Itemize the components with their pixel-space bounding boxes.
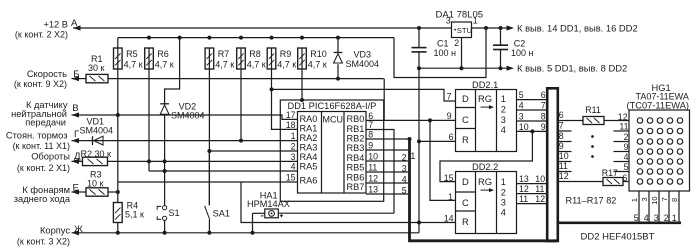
svg-text:1: 1	[501, 94, 506, 104]
svg-text:4,7 к: 4,7 к	[277, 60, 296, 70]
svg-text:10: 10	[559, 151, 569, 161]
svg-text:В: В	[72, 103, 78, 114]
svg-text:D: D	[462, 176, 469, 187]
svg-text:7: 7	[447, 92, 452, 102]
svg-text:RG: RG	[478, 176, 492, 187]
svg-text:10: 10	[650, 196, 659, 204]
svg-text:R7: R7	[218, 49, 230, 59]
svg-text:9: 9	[559, 141, 564, 151]
svg-text:R17: R17	[602, 168, 618, 178]
svg-text:4: 4	[644, 213, 649, 223]
svg-text:передачи: передачи	[25, 117, 66, 127]
svg-text:R6: R6	[157, 49, 169, 59]
svg-text:9: 9	[447, 111, 452, 121]
svg-text:SA1: SA1	[213, 208, 230, 218]
svg-text:9: 9	[624, 142, 629, 152]
svg-text:3: 3	[446, 15, 451, 25]
svg-text:7: 7	[368, 120, 373, 130]
svg-text:R11–R17 82: R11–R17 82	[566, 196, 617, 206]
svg-text:2: 2	[454, 38, 459, 48]
svg-text:7: 7	[559, 121, 564, 131]
svg-text:RA0: RA0	[300, 114, 318, 124]
svg-text:4: 4	[291, 162, 296, 172]
svg-text:6: 6	[541, 90, 546, 100]
svg-text:4,7 к: 4,7 к	[308, 60, 327, 70]
svg-text:8: 8	[541, 112, 546, 122]
svg-text:SM4004: SM4004	[171, 110, 205, 120]
svg-text:Д: Д	[74, 151, 81, 162]
svg-text:14: 14	[444, 213, 454, 223]
svg-text:S1: S1	[168, 208, 179, 218]
svg-text:3: 3	[501, 198, 506, 208]
svg-text:А: А	[71, 18, 78, 29]
svg-text:RG: RG	[478, 93, 492, 104]
svg-text:10: 10	[368, 152, 378, 162]
svg-text:D: D	[462, 93, 469, 104]
svg-text:1: 1	[672, 213, 677, 223]
svg-text:8: 8	[368, 130, 373, 140]
svg-text:Е: Е	[73, 183, 79, 194]
svg-text:R: R	[462, 134, 469, 145]
svg-text:STU: STU	[457, 26, 472, 35]
svg-text:(к конт. 2 Х1): (к конт. 2 Х1)	[17, 163, 70, 173]
svg-text:4,7 к: 4,7 к	[124, 60, 143, 70]
svg-text:8: 8	[559, 131, 564, 141]
svg-text:3: 3	[640, 197, 649, 201]
svg-text:R5: R5	[126, 49, 138, 59]
svg-text:Ж: Ж	[74, 224, 83, 235]
svg-text:RA3: RA3	[300, 143, 318, 153]
svg-text:3: 3	[654, 213, 659, 223]
svg-text:12: 12	[618, 112, 628, 122]
svg-text:R: R	[462, 216, 469, 227]
svg-text:+12 В: +12 В	[43, 19, 68, 29]
svg-text:RA1: RA1	[300, 124, 318, 134]
svg-text:R11: R11	[585, 105, 601, 115]
svg-text:5: 5	[402, 186, 407, 196]
svg-text:100 н: 100 н	[511, 48, 534, 58]
svg-text:(к конт. 11 Х1): (к конт. 11 Х1)	[13, 141, 70, 151]
svg-text:R9: R9	[280, 49, 292, 59]
svg-text:Корпус: Корпус	[40, 226, 70, 236]
svg-text:RB7: RB7	[347, 182, 365, 192]
svg-text:DD2.1: DD2.1	[472, 80, 498, 90]
svg-text:HPM14AX: HPM14AX	[247, 199, 290, 209]
svg-text:Скорость: Скорость	[27, 69, 67, 79]
svg-text:7: 7	[660, 197, 669, 201]
svg-text:2: 2	[291, 142, 296, 152]
svg-text:6: 6	[622, 173, 627, 183]
svg-text:RA2: RA2	[300, 133, 318, 143]
svg-text:DD1 PIC16F628A-I/P: DD1 PIC16F628A-I/P	[288, 101, 377, 111]
svg-text:R10: R10	[310, 49, 327, 59]
svg-text:1: 1	[501, 177, 506, 187]
svg-text:10: 10	[535, 174, 545, 184]
svg-text:C: C	[462, 114, 469, 125]
svg-text:5: 5	[624, 162, 629, 172]
svg-text:4,7 к: 4,7 к	[215, 60, 234, 70]
svg-text:13: 13	[368, 185, 378, 195]
svg-text:4: 4	[501, 125, 506, 135]
svg-text:5: 5	[634, 213, 639, 223]
svg-text:C: C	[462, 197, 469, 208]
svg-text:1: 1	[630, 198, 639, 202]
svg-text:(TC07-11EWA): (TC07-11EWA)	[627, 100, 690, 110]
svg-text:2: 2	[501, 187, 506, 197]
svg-text:1: 1	[410, 151, 415, 161]
svg-text:RB6: RB6	[347, 172, 365, 182]
svg-text:RB3: RB3	[347, 143, 365, 153]
svg-text:2: 2	[664, 213, 669, 223]
svg-text:13: 13	[519, 174, 529, 184]
svg-text:3: 3	[501, 115, 506, 125]
svg-text:RB4: RB4	[347, 153, 365, 163]
svg-text:(к конт. 2 Х2): (к конт. 2 Х2)	[15, 30, 68, 40]
svg-text:3: 3	[291, 152, 296, 162]
svg-text:10: 10	[519, 122, 529, 132]
svg-text:К выв. 5 DD1, выв. 8 DD2: К выв. 5 DD1, выв. 8 DD2	[517, 63, 627, 74]
svg-text:8: 8	[670, 198, 679, 202]
svg-text:RB2: RB2	[347, 134, 365, 144]
svg-text:12: 12	[559, 171, 569, 181]
svg-text:7: 7	[541, 101, 546, 111]
svg-text:Обороты: Обороты	[31, 152, 70, 162]
svg-text:MCU: MCU	[323, 115, 344, 125]
svg-text:SM4004: SM4004	[80, 126, 114, 136]
svg-text:12: 12	[519, 184, 529, 194]
svg-text:4,7 к: 4,7 к	[247, 60, 266, 70]
svg-text:100 н: 100 н	[434, 48, 457, 58]
svg-text:R2 30 к: R2 30 к	[81, 149, 112, 159]
svg-text:1: 1	[473, 15, 478, 25]
svg-text:Г: Г	[74, 129, 80, 140]
svg-text:(к конт. 9 Х2): (к конт. 9 Х2)	[14, 79, 67, 89]
svg-text:15: 15	[444, 173, 454, 183]
svg-text:4: 4	[519, 101, 524, 111]
svg-text:SM4004: SM4004	[346, 59, 380, 69]
svg-text:12: 12	[535, 194, 545, 204]
svg-text:6: 6	[559, 110, 564, 120]
svg-text:R8: R8	[249, 49, 261, 59]
svg-text:5: 5	[519, 90, 524, 100]
svg-text:6: 6	[449, 132, 454, 142]
svg-text:Стоян. тормоз: Стоян. тормоз	[6, 131, 68, 141]
svg-text:RA4: RA4	[300, 152, 318, 162]
svg-text:4: 4	[501, 208, 506, 218]
svg-text:DD2.2: DD2.2	[472, 162, 498, 172]
svg-text:17: 17	[286, 110, 296, 120]
svg-text:4: 4	[402, 175, 407, 185]
svg-text:2: 2	[624, 132, 629, 142]
svg-text:3: 3	[519, 112, 524, 122]
svg-text:1: 1	[291, 131, 296, 141]
svg-text:11: 11	[559, 161, 568, 171]
svg-text:15: 15	[286, 173, 296, 183]
svg-text:Б: Б	[73, 69, 79, 80]
svg-text:11: 11	[535, 184, 544, 194]
svg-text:2: 2	[501, 104, 506, 114]
svg-text:1: 1	[448, 192, 453, 202]
svg-text:2: 2	[402, 153, 407, 163]
svg-text:3: 3	[402, 164, 407, 174]
svg-text:К выв. 14 DD1, выв. 16 DD2: К выв. 14 DD1, выв. 16 DD2	[517, 23, 638, 34]
svg-text:RA5: RA5	[300, 162, 318, 172]
svg-text:11: 11	[619, 122, 628, 132]
svg-text:4,7 к: 4,7 к	[155, 60, 174, 70]
svg-text:заднего хода: заднего хода	[14, 194, 71, 204]
svg-text:RB1: RB1	[347, 124, 365, 134]
svg-text:RB5: RB5	[347, 163, 365, 173]
svg-text:RB0: RB0	[347, 114, 365, 124]
svg-text:12: 12	[368, 174, 378, 184]
svg-text:11: 11	[368, 163, 377, 173]
svg-text:30 к: 30 к	[88, 63, 105, 73]
svg-text:4: 4	[624, 152, 629, 162]
svg-text:9: 9	[368, 141, 373, 151]
svg-text:9: 9	[541, 122, 546, 132]
svg-text:18: 18	[286, 120, 296, 130]
svg-text:11: 11	[519, 194, 528, 204]
svg-text:5,1 к: 5,1 к	[125, 210, 144, 220]
svg-text:DD2 HEF4015BT: DD2 HEF4015BT	[581, 232, 655, 243]
svg-text:RA6: RA6	[300, 175, 318, 185]
svg-text:(к конт. 3 Х2): (к конт. 3 Х2)	[17, 237, 70, 247]
svg-text:10 к: 10 к	[87, 178, 104, 188]
